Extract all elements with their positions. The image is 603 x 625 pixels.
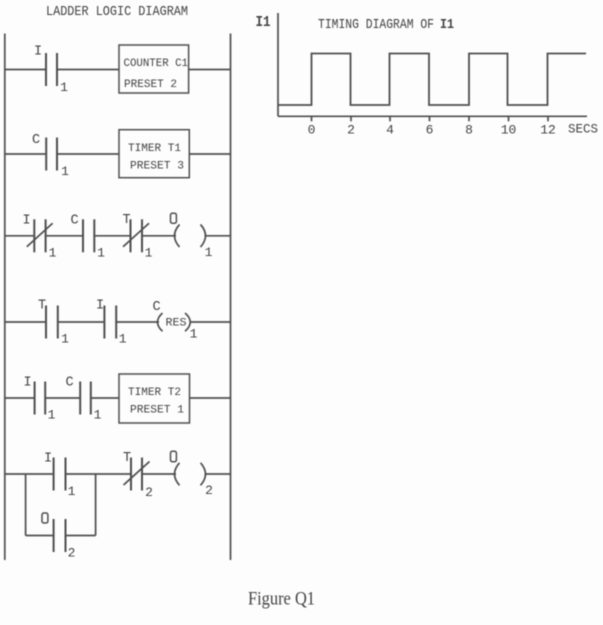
branch right vertical: [95, 474, 97, 536]
svg-text:1: 1: [97, 246, 105, 261]
rung 4 wire b: [116, 321, 159, 323]
rung 2 wire middle: [57, 153, 119, 155]
svg-text:4: 4: [386, 123, 394, 138]
svg-text:C: C: [152, 300, 160, 315]
rung 4 wire left: [5, 321, 46, 323]
right rail: [230, 34, 232, 561]
rung 2 wire left: [5, 153, 46, 155]
coil O1 rung 3: [175, 225, 206, 248]
rung 6 wire a: [66, 473, 132, 475]
rung 4 wire right: [191, 321, 231, 323]
contact T2 (NC) rung 6: [131, 458, 142, 491]
svg-text:1: 1: [205, 245, 213, 260]
branch left vertical: [25, 474, 27, 536]
svg-text:10: 10: [501, 123, 517, 138]
svg-text:I: I: [22, 214, 30, 229]
tick 12: [547, 116, 549, 121]
rung 1 wire right: [189, 69, 231, 71]
tick 0: [311, 116, 313, 121]
rung 2 wire right: [189, 153, 230, 155]
svg-text:SECS: SECS: [568, 123, 598, 137]
label O coil rung 6: [171, 451, 177, 461]
label O coil rung 3: [171, 213, 177, 223]
svg-text:6: 6: [426, 123, 434, 138]
svg-text:1: 1: [61, 164, 69, 179]
tick 6: [429, 116, 431, 121]
contact C1 (NO) rung 3: [83, 219, 94, 252]
svg-text:COUNTER C1: COUNTER C1: [124, 58, 189, 70]
coil O2 rung 6: [175, 463, 206, 486]
contact T1 (NC) rung 3: [131, 219, 143, 252]
contact T1 (NO) rung 4: [46, 306, 58, 339]
slash NC I1 rung 3: [27, 223, 53, 247]
branch wire left: [26, 535, 54, 537]
rung 3 wire right: [205, 235, 231, 237]
svg-text:2: 2: [145, 485, 153, 500]
rung 3 wire a: [46, 235, 83, 237]
svg-text:1: 1: [145, 246, 153, 261]
label O branch: [42, 513, 48, 523]
svg-text:I: I: [44, 452, 52, 467]
svg-text:I: I: [23, 376, 31, 391]
contact O2 (NO) branch: [54, 519, 66, 552]
svg-text:2: 2: [347, 123, 355, 138]
svg-text:1: 1: [190, 327, 198, 342]
rung 4 wire a: [58, 321, 105, 323]
svg-text:C: C: [70, 214, 78, 229]
contact I1 (NO) rung 5: [35, 382, 46, 415]
svg-text:1: 1: [49, 246, 57, 261]
timer box T1: [119, 130, 189, 178]
svg-text:T: T: [38, 299, 46, 314]
timing x axis: [278, 115, 587, 117]
svg-text:I1: I1: [256, 14, 271, 31]
svg-text:TIMER T1: TIMER T1: [128, 143, 181, 155]
svg-text:TIMING DIAGRAM OF: TIMING DIAGRAM OF: [318, 18, 434, 33]
tick 8: [468, 116, 470, 121]
svg-text:Figure Q1: Figure Q1: [248, 589, 315, 610]
svg-text:C: C: [65, 376, 73, 391]
rung 5 wire a: [45, 397, 80, 399]
tick 2: [350, 116, 352, 121]
svg-text:8: 8: [465, 123, 473, 138]
svg-text:12: 12: [540, 123, 556, 138]
rung 5 wire right: [190, 397, 231, 399]
svg-text:PRESET 2: PRESET 2: [124, 79, 177, 91]
timing y axis: [277, 13, 279, 116]
rung 5 wire b: [91, 397, 119, 399]
svg-text:RES: RES: [166, 318, 187, 330]
rung 6 wire b: [142, 473, 176, 475]
svg-text:1: 1: [61, 332, 69, 347]
contact I1 (NO) rung 1: [46, 53, 57, 86]
timer box T2: [119, 374, 190, 423]
svg-text:1: 1: [68, 484, 76, 499]
waveform I1: [278, 54, 586, 106]
left rail: [4, 34, 6, 561]
svg-text:T: T: [123, 451, 131, 466]
svg-text:T: T: [122, 213, 130, 228]
rung 6 wire right: [205, 473, 231, 475]
svg-text:I: I: [96, 299, 104, 314]
rung 3 wire b: [94, 235, 130, 237]
rung 6 wire left: [5, 473, 54, 475]
svg-text:TIMER T2: TIMER T2: [128, 387, 181, 399]
svg-text:1: 1: [94, 408, 102, 423]
svg-text:0: 0: [308, 123, 316, 138]
svg-text:1: 1: [119, 332, 127, 347]
rung 3 wire c: [142, 235, 176, 237]
rung 5 wire left: [5, 397, 35, 399]
tick 10: [508, 116, 510, 121]
svg-text:2: 2: [68, 546, 76, 561]
tick 4: [389, 116, 391, 121]
branch wire right: [66, 535, 96, 537]
rung 1 wire left: [5, 69, 46, 71]
svg-text:I1: I1: [440, 18, 454, 33]
contact C1 (NO) rung 2: [46, 138, 57, 171]
svg-text:PRESET 1: PRESET 1: [130, 405, 184, 417]
svg-text:C: C: [32, 133, 40, 148]
coil C1 reset rung 4: [158, 313, 191, 331]
svg-text:2: 2: [205, 483, 213, 498]
svg-text:LADDER LOGIC DIAGRAM: LADDER LOGIC DIAGRAM: [46, 4, 188, 20]
contact C1 (NO) rung 5: [80, 382, 91, 415]
svg-text:1: 1: [60, 80, 68, 95]
rung 1 wire middle: [57, 69, 119, 71]
contact I1 (NO) rung 4: [104, 306, 116, 339]
svg-text:I: I: [34, 45, 42, 60]
slash NC T2 rung 6: [124, 462, 150, 486]
slash NC T1 rung 3: [123, 223, 149, 247]
counter box C1: [119, 45, 189, 93]
contact I1 (NO) rung 6: [54, 458, 66, 491]
rung 3 wire left: [5, 235, 35, 237]
svg-text:PRESET 3: PRESET 3: [130, 161, 184, 173]
svg-text:1: 1: [48, 408, 56, 423]
contact I1 (NC) rung 3: [34, 219, 45, 252]
